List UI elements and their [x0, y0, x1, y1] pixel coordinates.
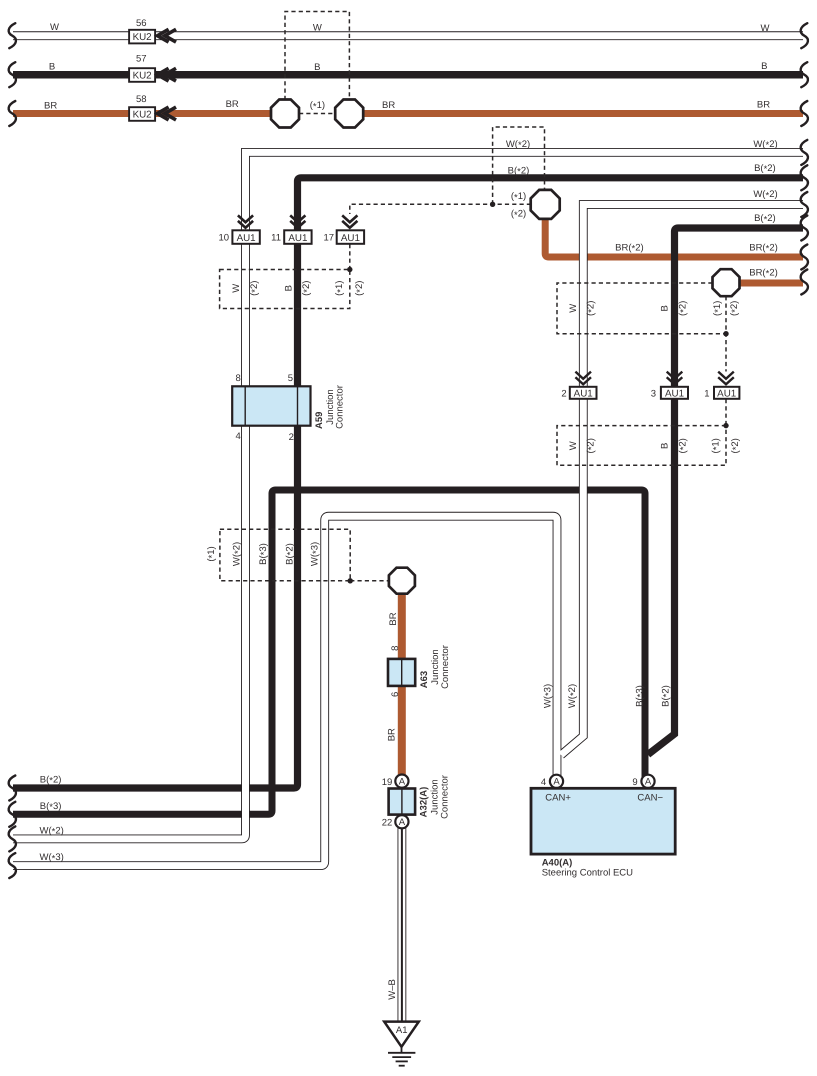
- svg-text:W(*2): W(*2): [506, 139, 530, 151]
- svg-text:8: 8: [235, 373, 240, 384]
- svg-text:AU1: AU1: [341, 233, 360, 244]
- dashed shield nets: [220, 12, 726, 581]
- chevron arrow into AU1 pin 10: [238, 215, 734, 384]
- wire B(*3): left edge up through corner, right along y=490, down to ECU pin 9: [13, 490, 645, 814]
- shield dashed box D ((*1) W(*2) B(*3) B(*2) W(*3)): [220, 529, 350, 581]
- svg-text:B(*2): B(*2): [660, 685, 672, 707]
- connector KU2 box (wire W, pin 56): [129, 30, 155, 44]
- svg-text:W: W: [761, 23, 770, 34]
- svg-text:A63: A63: [419, 671, 430, 688]
- wire W-B from A32 pin 22 to ground A1 (outline): [397, 824, 406, 1022]
- svg-text:(*1): (*1): [511, 191, 526, 203]
- connector AU1 box pin 17: [337, 230, 364, 244]
- svg-text:CAN+: CAN+: [545, 793, 571, 804]
- svg-text:W(*2): W(*2): [753, 139, 777, 151]
- chevron arrow into AU1 pin 2: [575, 372, 591, 379]
- wire W(*3): left edge up at x=324.7 right along y=516 down to ECU pin 4 (outline): [13, 516, 557, 865]
- svg-text:(*1): (*1): [334, 281, 346, 296]
- svg-text:BR: BR: [382, 100, 395, 111]
- svg-text:(*2): (*2): [678, 438, 690, 453]
- svg-text:B: B: [660, 443, 671, 449]
- svg-text:B: B: [284, 285, 295, 291]
- wire break squiggles right edge: [801, 23, 808, 48]
- junction connector A32(A): [389, 789, 416, 815]
- chevron arrows after KU2 on wire B: [157, 68, 168, 81]
- junction dot at dashed box D bottom right: [348, 578, 353, 583]
- svg-text:(*2): (*2): [354, 281, 366, 296]
- svg-text:A: A: [553, 777, 560, 788]
- svg-text:10: 10: [219, 233, 230, 244]
- connector AU1 box pin 1: [714, 387, 739, 399]
- svg-text:8: 8: [390, 646, 401, 651]
- wire W bus (top horizontal) outline: [13, 31, 803, 40]
- svg-text:B: B: [660, 305, 671, 311]
- svg-text:(*2): (*2): [511, 209, 526, 221]
- connector KU2 box (wire B, pin 57): [129, 68, 155, 82]
- connector KU2 box (wire BR, pin 58): [129, 107, 155, 121]
- svg-text:W: W: [50, 22, 59, 33]
- svg-text:AU1: AU1: [717, 388, 736, 399]
- svg-text:B(*3): B(*3): [40, 801, 62, 813]
- svg-text:56: 56: [136, 18, 147, 29]
- svg-text:4: 4: [235, 431, 240, 442]
- svg-text:9: 9: [632, 777, 637, 788]
- svg-text:CAN−: CAN−: [637, 793, 663, 804]
- shield octagon B (top BR bus right): [335, 100, 363, 128]
- svg-text:W: W: [313, 23, 322, 34]
- svg-text:Connector: Connector: [440, 645, 451, 689]
- svg-text:Steering Control ECU: Steering Control ECU: [542, 867, 633, 878]
- svg-text:AU1: AU1: [574, 388, 593, 399]
- wire W-B black stripe: [401, 824, 403, 1022]
- pin 4 circle (A) on ECU: [550, 775, 563, 788]
- svg-text:BR: BR: [44, 101, 57, 112]
- svg-text:17: 17: [324, 233, 335, 244]
- shield dashed drop AU1-17 to dashed box C: [349, 244, 351, 270]
- svg-text:AU1: AU1: [237, 233, 256, 244]
- wire W(*2): right edge to AU1-10 through A59 down to left edge (outline): [13, 152, 803, 839]
- svg-text:BR(*2): BR(*2): [615, 243, 644, 255]
- svg-text:(*2): (*2): [585, 301, 597, 316]
- chevron arrows after KU2 on wire W: [157, 29, 176, 120]
- connector AU1 box pin 11: [284, 230, 311, 244]
- shield octagon J1: [531, 190, 560, 219]
- svg-text:(*2): (*2): [729, 301, 741, 316]
- pin 22 circle (A) on A32: [395, 815, 408, 828]
- svg-text:B(*2): B(*2): [754, 163, 776, 175]
- svg-text:A: A: [399, 776, 406, 787]
- svg-text:W(*3): W(*3): [542, 684, 554, 708]
- svg-text:2: 2: [289, 432, 294, 443]
- shield octagon J2: [713, 269, 740, 296]
- wire B bus (top horizontal): [13, 71, 803, 79]
- wire BR from shield octagon J3 through A63 to A32 pin 19: [398, 581, 406, 776]
- svg-text:W(*2): W(*2): [567, 684, 579, 708]
- svg-text:BR(*2): BR(*2): [749, 243, 778, 255]
- wire BR bus (top, segment left of octagons): [13, 114, 803, 777]
- svg-text:W(*2): W(*2): [40, 826, 64, 838]
- junction dot at dashed box 2 top right: [723, 423, 728, 428]
- svg-text:BR: BR: [757, 99, 770, 110]
- svg-text:(*2): (*2): [730, 438, 742, 453]
- svg-text:W(*3): W(*3): [40, 852, 64, 864]
- wire B(*2): right edge to AU1-11 through A59 down to left edge: [13, 178, 803, 788]
- svg-text:AU1: AU1: [288, 233, 307, 244]
- svg-text:B(*3): B(*3): [258, 543, 270, 565]
- svg-text:B(*3): B(*3): [634, 685, 646, 707]
- svg-text:B(*2): B(*2): [754, 213, 776, 225]
- svg-text:(*1): (*1): [712, 301, 724, 316]
- ECU A40(A) box: [531, 788, 675, 854]
- wire BR bus (top, segment right of octagons): [362, 110, 803, 117]
- junction connector A63: [388, 659, 415, 686]
- shield dashed box 2: [557, 426, 726, 466]
- svg-text:B(*2): B(*2): [508, 165, 530, 177]
- ground symbol A1: [384, 1022, 419, 1066]
- svg-text:B: B: [761, 61, 767, 72]
- svg-text:6: 6: [390, 692, 401, 697]
- chevron arrow into AU1 pin 1: [718, 372, 734, 379]
- svg-text:W: W: [568, 441, 579, 450]
- svg-text:A: A: [399, 817, 406, 828]
- svg-text:5: 5: [288, 373, 293, 384]
- wire break squiggles left edge: [9, 23, 808, 878]
- junction dot on dashed net at W(*2): [490, 202, 495, 207]
- svg-text:A32(A): A32(A): [419, 787, 430, 818]
- chevron arrow into AU1 pin 11: [290, 215, 305, 222]
- svg-text:BR: BR: [387, 728, 398, 741]
- shield dashed octagon J2 drop to dot and AU1-1: [725, 296, 727, 371]
- svg-text:1: 1: [704, 388, 709, 399]
- svg-text:3: 3: [651, 388, 656, 399]
- chevron arrow into AU1 pin 3: [667, 372, 683, 379]
- svg-text:(*2): (*2): [585, 438, 597, 453]
- shield octagon J3 (above A63): [389, 568, 415, 594]
- svg-text:W(*3): W(*3): [310, 542, 322, 566]
- shield octagon A (top BR bus left): [271, 100, 299, 128]
- shield dashed box 1 top edge to octagon J2: [557, 283, 726, 334]
- svg-text:W: W: [568, 304, 579, 313]
- wire B(*2): right edge to AU1-3 vertical, diagonal into ECU pin 9: [648, 228, 803, 755]
- connector AU1 box pin 3: [661, 387, 688, 399]
- svg-text:W–B: W–B: [387, 979, 398, 1000]
- wire W(*2): right edge corner down through AU1-2 to ECU pin 4 (outline): [561, 205, 803, 756]
- junction connector A59: [232, 386, 310, 425]
- shield dashed link between top octagons: [299, 113, 335, 115]
- connector AU1 box pin 2: [570, 387, 597, 399]
- svg-text:B(*2): B(*2): [284, 543, 296, 565]
- svg-text:W(*2): W(*2): [232, 542, 244, 566]
- pin 9 circle (A) on ECU: [641, 775, 654, 788]
- svg-text:22: 22: [382, 817, 393, 828]
- chevron arrow into AU1 pin 17: [342, 215, 357, 222]
- svg-text:Connector: Connector: [439, 775, 450, 819]
- svg-text:(*1): (*1): [711, 438, 723, 453]
- svg-text:Connector: Connector: [335, 385, 346, 429]
- chevron arrows after KU2 on wire BR: [157, 107, 168, 120]
- svg-text:KU2: KU2: [133, 110, 152, 121]
- svg-text:A1: A1: [396, 1025, 408, 1036]
- connector AU1 box pin 10: [232, 230, 259, 244]
- svg-text:(*1): (*1): [310, 100, 325, 112]
- svg-text:B: B: [314, 62, 320, 73]
- shield dashed box over top bus (octagon pair): [285, 12, 349, 101]
- svg-text:(*2): (*2): [678, 301, 690, 316]
- shield dashed box above wires W(*2)/B(*2): [493, 127, 545, 204]
- shield dashed net from AU1-17 to octagon J1: [350, 204, 531, 214]
- junction dot at dashed box C top right: [347, 267, 352, 272]
- pin 19 circle (A) on A32: [395, 775, 408, 788]
- svg-text:B: B: [49, 61, 55, 72]
- wire BR(*2) from shield octagon J2 to right edge: [726, 280, 803, 287]
- svg-text:BR(*2): BR(*2): [749, 267, 778, 279]
- wire BR(*2) from shield octagon J1 to right edge: [545, 204, 803, 257]
- svg-text:(*2): (*2): [249, 281, 261, 296]
- svg-text:W(*2): W(*2): [753, 189, 777, 201]
- svg-text:4: 4: [541, 777, 546, 788]
- shield dashed AU1-1 to box 2: [725, 399, 727, 426]
- svg-text:58: 58: [136, 94, 147, 105]
- svg-text:A59: A59: [314, 412, 325, 429]
- junction dot below octagon J2: [723, 331, 728, 336]
- svg-text:(*2): (*2): [301, 281, 313, 296]
- svg-text:BR: BR: [388, 612, 399, 625]
- svg-text:W: W: [231, 284, 242, 293]
- svg-text:2: 2: [561, 388, 566, 399]
- svg-text:KU2: KU2: [133, 32, 152, 43]
- svg-text:AU1: AU1: [665, 388, 684, 399]
- svg-text:BR: BR: [226, 99, 239, 110]
- svg-text:57: 57: [136, 54, 147, 65]
- svg-text:A: A: [645, 777, 652, 788]
- svg-text:(*1): (*1): [206, 546, 218, 561]
- svg-text:KU2: KU2: [133, 71, 152, 82]
- svg-text:19: 19: [382, 777, 393, 788]
- svg-text:B(*2): B(*2): [40, 775, 62, 787]
- svg-text:11: 11: [271, 233, 281, 244]
- shield dashed box C (W/B (*2) labels): [220, 270, 350, 309]
- shield dashed link dot to octagon J3: [350, 580, 389, 582]
